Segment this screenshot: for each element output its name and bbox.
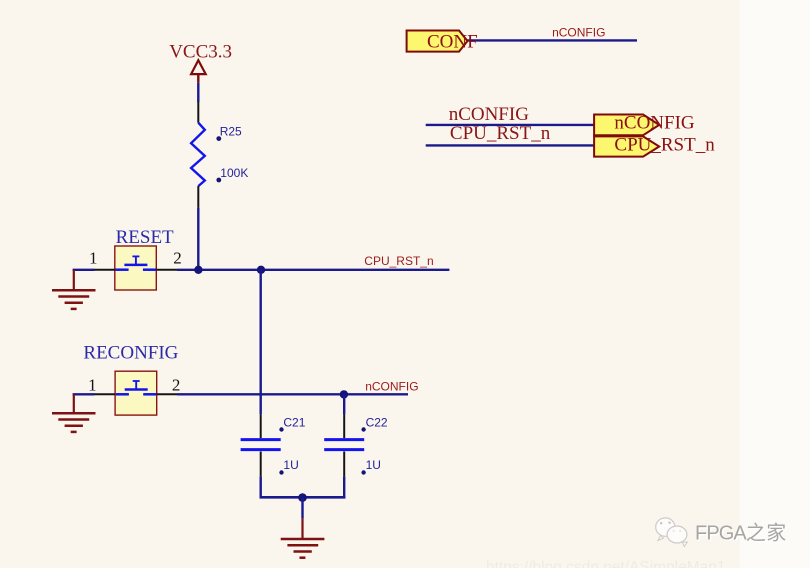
pushbutton RESET: [89, 227, 182, 290]
pushbutton RECONFIG: [83, 343, 180, 416]
svg-text:C21: C21: [283, 415, 305, 429]
svg-text:CPU_RST_n: CPU_RST_n: [364, 254, 433, 268]
svg-text:RECONFIG: RECONFIG: [83, 343, 178, 364]
wire to nCONFIG port: [426, 124, 594, 126]
ground below capacitors: [281, 518, 325, 557]
wire junction to ground: [301, 498, 303, 519]
port CONF: [407, 31, 478, 53]
ground at RESET pin 1: [52, 270, 96, 309]
svg-text:nCONFIG: nCONFIG: [614, 113, 695, 134]
svg-text:C22: C22: [366, 415, 388, 429]
svg-text:1U: 1U: [366, 458, 381, 472]
resistor R25 100K: [191, 102, 248, 208]
port CPU_RST_n: [594, 135, 715, 157]
svg-text:RESET: RESET: [116, 227, 174, 248]
ground at RECONFIG pin 1: [52, 394, 96, 432]
svg-text:2: 2: [173, 249, 182, 268]
svg-text:1: 1: [88, 376, 97, 395]
wire VCC to R25: [197, 83, 199, 102]
wire node down to C21: [260, 270, 262, 415]
wire C22 bottom: [343, 476, 345, 498]
junction at C22 branch: [340, 390, 348, 398]
svg-text:CPU_RST_n: CPU_RST_n: [614, 135, 715, 156]
watermark wechat icon: [656, 518, 688, 547]
svg-text:FPGA之家: FPGA之家: [695, 522, 787, 545]
port nCONFIG: [594, 113, 695, 136]
wire CPU_RST_n: [177, 269, 449, 271]
svg-text:2: 2: [172, 376, 181, 395]
power port VCC3.3: [169, 41, 232, 82]
net label nCONFIG top: [552, 26, 605, 40]
junction node to caps branch: [257, 266, 265, 274]
wire junction to C22: [343, 394, 345, 414]
svg-text:nCONFIG: nCONFIG: [552, 26, 605, 40]
svg-text:1U: 1U: [283, 458, 298, 472]
svg-text:100K: 100K: [220, 166, 248, 180]
watermark text FPGA之家: [695, 522, 788, 546]
label nCONFIG serif: [449, 104, 530, 125]
svg-text:R25: R25: [220, 124, 242, 138]
net label nCONFIG: [365, 380, 418, 394]
svg-text:nCONFIG: nCONFIG: [365, 380, 418, 394]
junction caps ground: [298, 493, 307, 502]
watermark url: [486, 559, 726, 568]
wire nCONFIG: [177, 393, 408, 395]
wire caps common: [260, 496, 346, 499]
svg-text:CPU_RST_n: CPU_RST_n: [450, 123, 551, 144]
svg-text:nCONFIG: nCONFIG: [449, 104, 530, 125]
label CPU_RST_n serif: [450, 123, 551, 144]
wire from CONF port: [468, 39, 638, 41]
capacitor C22 1U: [324, 414, 388, 476]
svg-text:https://blog.csdn.net/ASimpleM: https://blog.csdn.net/ASimpleMan1: [486, 559, 726, 568]
junction at R25 / RESET: [194, 266, 202, 274]
wire to CPU_RST_n port: [426, 144, 594, 146]
svg-text:VCC3.3: VCC3.3: [169, 41, 232, 62]
wire R25 to node: [197, 208, 199, 270]
capacitor C21 1U: [241, 414, 306, 476]
wire C21 bottom: [260, 476, 262, 498]
net label CPU_RST_n: [364, 254, 433, 268]
svg-text:CONF: CONF: [427, 32, 478, 53]
svg-text:1: 1: [89, 249, 98, 268]
